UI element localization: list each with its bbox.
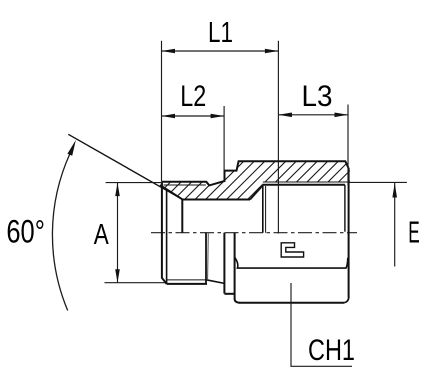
hatching section fill: [65, 128, 438, 235]
svg-text:L2: L2: [180, 80, 206, 113]
female thread minor (thick): [263, 184, 345, 186]
steel mark glyph: [281, 243, 303, 257]
transition cone slant bottom: [206, 280, 224, 284]
bore line: [182, 199, 250, 201]
male thread root top (thin): [164, 184, 206, 186]
hex right lower corner arc: [344, 297, 349, 303]
hex left face vertical: [235, 233, 240, 303]
hex bottom flat: [239, 302, 344, 304]
svg-text:A: A: [94, 219, 110, 251]
right face: [348, 168, 350, 297]
dimension L3: [278, 105, 348, 186]
label CH1 with leader: [291, 283, 352, 366]
male thread bottom root (thin): [167, 279, 206, 281]
thread end vertical (bottom view): [205, 233, 207, 284]
bore chamfer slant: [250, 185, 263, 199]
outline top profile: [162, 161, 349, 185]
arc arrowhead: [67, 140, 76, 156]
male face outer: [162, 182, 167, 284]
male thread bottom crest: [167, 283, 207, 285]
dimension L2: [162, 106, 225, 170]
dimension L1: [162, 41, 279, 234]
male face chamfer inner: [166, 189, 168, 283]
apex vertical: [181, 199, 183, 232]
svg-text:L1: L1: [208, 17, 233, 49]
hex edge line with chamfer arcs: [235, 258, 348, 269]
60-degree cone line: [68, 134, 182, 199]
thread mouth vertical: [344, 185, 346, 232]
60 degree angle arc: [52, 154, 69, 311]
svg-text:60°: 60°: [6, 214, 45, 250]
centerline: [151, 232, 357, 234]
female thread crest (thin): [263, 181, 349, 183]
svg-text:L3: L3: [302, 80, 333, 113]
thread runout thin line: [207, 233, 210, 279]
dimension A: [105, 183, 166, 283]
svg-text:CH1: CH1: [308, 334, 355, 367]
collar bottom flat: [224, 293, 234, 295]
dimension B: [349, 182, 407, 266]
svg-text:E: E: [408, 215, 420, 250]
female thread end verticals: [262, 185, 264, 233]
washer face vertical bottom: [223, 233, 225, 294]
